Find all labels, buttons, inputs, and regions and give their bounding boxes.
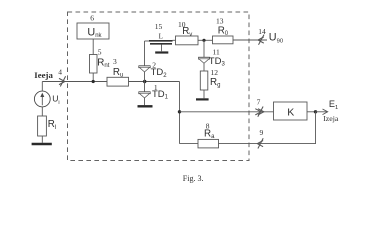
svg-text:12: 12 bbox=[211, 68, 219, 77]
ground under Rg bbox=[196, 98, 209, 100]
wire Rnt to rail bbox=[92, 73, 94, 82]
node between Rv and R0 bbox=[202, 39, 205, 42]
resistor R0 bbox=[213, 36, 234, 44]
output arrow E1 bbox=[316, 109, 328, 115]
wire source bottom to Ri bbox=[41, 107, 43, 116]
svg-text:RI: RI bbox=[48, 119, 57, 131]
resistor Rnt bbox=[90, 55, 98, 74]
svg-text:K: K bbox=[287, 107, 294, 119]
wire Rv to node bbox=[198, 39, 213, 41]
svg-text:9: 9 bbox=[260, 128, 264, 137]
svg-text:Rv: Rv bbox=[182, 26, 192, 38]
wire K to output node bbox=[307, 111, 316, 113]
svg-text:Ra: Ra bbox=[204, 129, 215, 141]
wire L to Rv bbox=[173, 39, 176, 41]
terminal 7 (connector arrow into K) bbox=[255, 107, 264, 117]
wire output node down to feedback rail bbox=[219, 112, 316, 144]
ground (input side) bbox=[32, 143, 52, 146]
wire R0 to terminal 14 bbox=[233, 39, 267, 41]
block U6 (Unk control source box) bbox=[77, 23, 109, 39]
svg-text:TD3: TD3 bbox=[209, 56, 226, 68]
resistor Ri bbox=[38, 116, 47, 136]
wire node down to TD3 bbox=[203, 40, 205, 57]
wire rail corner down right side bbox=[179, 82, 181, 144]
wire Ri bottom to ground bbox=[41, 136, 43, 143]
resistor Rv bbox=[176, 36, 199, 45]
ground under TD1 bbox=[138, 105, 153, 107]
svg-text:4: 4 bbox=[58, 67, 62, 76]
resistor Ru bbox=[107, 77, 129, 86]
svg-text:Ieeja: Ieeja bbox=[34, 70, 53, 80]
tunnel diode TD3 bbox=[198, 57, 210, 71]
svg-text:7: 7 bbox=[257, 98, 261, 107]
tunnel diode TD2 bbox=[139, 41, 151, 82]
resistor Rg bbox=[200, 71, 208, 90]
wire source top to rail bbox=[41, 82, 43, 92]
node at branch to K bbox=[178, 110, 181, 113]
svg-text:L: L bbox=[159, 33, 163, 41]
svg-text:TD2: TD2 bbox=[151, 67, 168, 79]
wire Rg to ground bbox=[203, 90, 205, 98]
svg-text:15: 15 bbox=[155, 22, 163, 31]
svg-text:13: 13 bbox=[216, 17, 224, 26]
svg-text:Unk: Unk bbox=[87, 26, 102, 39]
node at TD junction bbox=[143, 80, 146, 83]
terminal 9 (connector arrow into block) bbox=[257, 138, 263, 148]
svg-text:14: 14 bbox=[258, 27, 266, 36]
svg-text:5: 5 bbox=[98, 47, 102, 56]
tunnel diode TD1 bbox=[139, 82, 151, 106]
svg-text:R0: R0 bbox=[218, 25, 229, 37]
wire Ru to TD node bbox=[129, 81, 180, 83]
inductor L (feed-through element with ground) bbox=[149, 41, 173, 53]
svg-text:Rg: Rg bbox=[210, 77, 220, 89]
wire TD2 top to L bbox=[145, 40, 150, 42]
svg-text:Izeja: Izeja bbox=[323, 114, 339, 123]
wire branch to terminal 7 bbox=[180, 111, 274, 113]
wire Unk to Rnt bbox=[92, 39, 94, 55]
source U1 (input signal source circle with up arrow) bbox=[34, 91, 50, 107]
node at output junction bbox=[314, 110, 317, 113]
resistor Ra bbox=[198, 139, 219, 148]
svg-text:Ui: Ui bbox=[52, 94, 59, 106]
svg-text:U90: U90 bbox=[269, 32, 283, 45]
svg-text:6: 6 bbox=[90, 14, 94, 23]
node at Rnt/rail junction bbox=[92, 80, 95, 83]
svg-text:TD1: TD1 bbox=[152, 89, 169, 101]
svg-text:E1: E1 bbox=[329, 99, 338, 111]
wire input rail bbox=[42, 81, 107, 83]
dashed boundary box of circuit block bbox=[68, 12, 250, 161]
svg-text:Rnt: Rnt bbox=[97, 58, 109, 70]
svg-text:3: 3 bbox=[113, 57, 117, 66]
amplifier block K bbox=[274, 102, 308, 120]
terminal 4 (connector arrow into block) bbox=[59, 76, 66, 86]
svg-text:Fig. 3.: Fig. 3. bbox=[183, 174, 204, 183]
wire Ra to corner bbox=[180, 143, 199, 145]
terminal 14 (connector arrow) bbox=[258, 35, 264, 45]
